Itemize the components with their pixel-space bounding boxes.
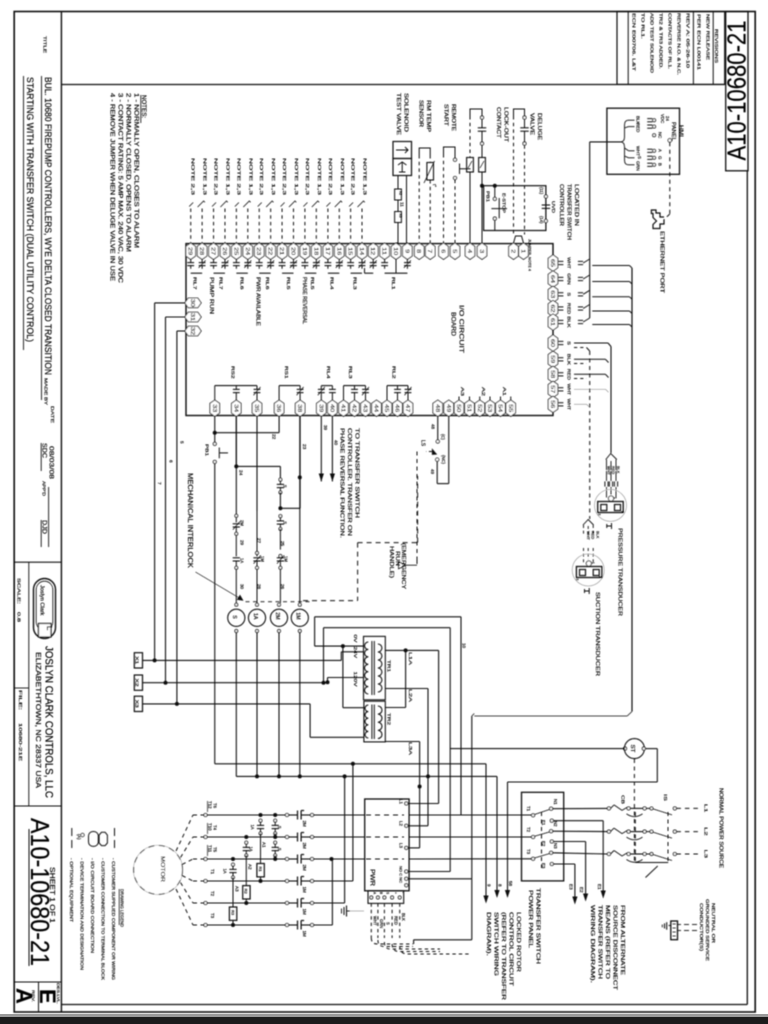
suction transducer connector body — [576, 567, 602, 578]
contactor coil 1A — [256, 603, 259, 606]
wire 10 riser down to transfer panel row — [460, 617, 462, 815]
rail wire 5 (X1) — [154, 303, 156, 661]
svg-text:-: - — [401, 892, 405, 893]
svg-text:A2: A2 — [480, 387, 486, 396]
terminal block X3 — [134, 696, 142, 711]
E2 wire and arrow — [553, 841, 585, 843]
dashed customer lines above terminals 19,18 — [304, 209, 306, 243]
svg-text:CONTROLLER: CONTROLLER — [558, 184, 564, 226]
svg-text:56: 56 — [549, 400, 555, 408]
svg-text:18: 18 — [312, 247, 318, 255]
svg-text:DELUGE: DELUGE — [536, 113, 542, 141]
PWR bottom dashed cable BLK — [399, 903, 401, 938]
TR1 tap 0V — [343, 645, 364, 647]
ground symbol near PWR — [350, 910, 364, 912]
TR1 tap 24V — [341, 651, 363, 653]
wire terminal 65 WHT — [558, 260, 563, 262]
analog pair A3 — [458, 397, 460, 401]
svg-text:0V: 0V — [353, 635, 358, 643]
wire 58 run to arrow — [508, 781, 635, 783]
terminal 21 — [277, 243, 287, 259]
suction transducer dashed feed branches — [574, 347, 587, 349]
PB1 pushbutton — [213, 442, 216, 445]
terminal 9 — [403, 243, 413, 259]
svg-text:RL3: RL3 — [352, 277, 357, 290]
svg-text:RL4: RL4 — [325, 366, 331, 379]
svg-text:NOTE 2,3: NOTE 2,3 — [236, 158, 241, 196]
wire terminal 32 to rail 7 — [177, 330, 185, 332]
svg-text:24: 24 — [238, 470, 244, 476]
I/O circuit board outline — [186, 244, 553, 416]
svg-text:WHT: WHT — [606, 466, 611, 475]
0V wire down to TR2 primary — [342, 646, 344, 708]
terminal 29 — [186, 243, 196, 259]
deluge bracket — [514, 109, 525, 116]
TR1 primary winding — [365, 642, 369, 694]
svg-text:65: 65 — [549, 259, 555, 267]
svg-text:7: 7 — [426, 249, 432, 253]
svg-text:2M: 2M — [302, 843, 307, 850]
terminal 64 on board right edge — [548, 271, 558, 287]
svg-text:L2: L2 — [399, 821, 404, 826]
svg-text:41: 41 — [340, 404, 346, 412]
wire terminal 4 line down — [469, 172, 471, 243]
svg-text:WIRING DIAGRAM).: WIRING DIAGRAM). — [589, 905, 595, 983]
svg-text:14: 14 — [358, 247, 364, 255]
svg-text:PER ECN L00141: PER ECN L00141 — [697, 14, 702, 71]
ST wire from riser — [450, 748, 623, 750]
relay contact 29-28 — [190, 259, 192, 262]
S auxiliary contact second (wire 25) — [279, 515, 282, 518]
PB1 common wire horizontal — [215, 763, 486, 765]
terminal 8 — [414, 243, 424, 259]
panel T3 pin — [532, 857, 535, 860]
svg-text:NOTE 2,3: NOTE 2,3 — [305, 158, 310, 196]
svg-text:NOTE 1,3: NOTE 1,3 — [317, 158, 322, 196]
terminal 57 on board right edge — [548, 381, 558, 397]
terminal 59 on board right edge — [548, 351, 558, 367]
terminal 2 — [509, 243, 519, 259]
svg-text:48: 48 — [431, 424, 436, 430]
terminal 44 on board bottom edge — [372, 400, 382, 416]
transformer TR1 box — [364, 636, 386, 699]
svg-text:26: 26 — [221, 247, 227, 255]
svg-text:NOTE 1,3: NOTE 1,3 — [225, 158, 230, 196]
svg-text:22: 22 — [271, 434, 277, 440]
source dashed lead L3 — [676, 853, 698, 855]
svg-text:WHT: WHT — [567, 399, 572, 411]
RM temp sensor dashed lines to terminals 8,7 — [418, 155, 420, 243]
svg-text:SUCTION TRANSDUCER: SUCTION TRANSDUCER — [594, 592, 600, 676]
terminal 35 on board bottom edge — [252, 400, 262, 416]
svg-text:1A: 1A — [252, 613, 258, 620]
svg-text:39: 39 — [323, 425, 328, 431]
wire terminal 64 GRN — [558, 276, 563, 278]
svg-text:WHT: WHT — [567, 384, 572, 396]
svg-text:JOSLYN CLARK CONTROLS, LLC: JOSLYN CLARK CONTROLS, LLC — [43, 646, 55, 798]
svg-text:62: 62 — [549, 305, 555, 313]
E3 wire and arrow — [553, 863, 575, 865]
terminal 10 — [391, 243, 401, 259]
C pin wire to right riser — [408, 878, 472, 880]
svg-text:1A: 1A — [250, 824, 255, 829]
svg-text:A2: A2 — [248, 864, 253, 870]
svg-text:NOTE 1,3: NOTE 1,3 — [248, 158, 253, 196]
svg-text:PWR AVAILABLE: PWR AVAILABLE — [255, 277, 261, 327]
E1 wire and arrow — [553, 820, 603, 822]
svg-text:APP'D: APP'D — [41, 481, 46, 496]
svg-text:NEUTRAL OR: NEUTRAL OR — [711, 903, 716, 944]
CB dashed linkage — [634, 812, 636, 861]
svg-text:31: 31 — [189, 313, 195, 321]
wire terminal 40 arrow down — [331, 417, 333, 482]
relay tree RL2 — [387, 385, 408, 387]
aux contact 1A chain A2 (L2-L5) — [244, 835, 248, 839]
PWR bottom dashed cable S — [383, 903, 385, 938]
svg-text:33: 33 — [211, 404, 217, 412]
svg-text:35: 35 — [253, 404, 259, 412]
svg-text:A3: A3 — [234, 886, 239, 892]
svg-text:61: 61 — [549, 318, 555, 326]
ST wire right and down — [645, 748, 657, 750]
title line 2 underline — [23, 76, 25, 350]
wire terminal 48 down — [437, 417, 439, 440]
svg-text:58: 58 — [508, 881, 513, 887]
HMI cable wire from bus to panel — [590, 141, 621, 143]
svg-text:LS: LS — [420, 440, 426, 447]
svg-text:WHT: WHT — [373, 916, 378, 926]
svg-text:57: 57 — [549, 385, 555, 393]
svg-text:30: 30 — [239, 584, 244, 590]
terminal 11 — [380, 243, 390, 259]
terminal 31 — [185, 312, 201, 322]
svg-text:NO C NC: NO C NC — [399, 866, 403, 883]
svg-text:6: 6 — [440, 249, 446, 253]
svg-text:2: 2 — [621, 511, 625, 513]
svg-text:T1: T1 — [526, 806, 531, 812]
svg-text:64: 64 — [549, 275, 555, 283]
svg-text:10: 10 — [462, 643, 467, 649]
wires from poles rightward — [313, 814, 365, 816]
svg-text:23: 23 — [255, 247, 261, 255]
svg-text:51: 51 — [466, 404, 472, 412]
S auxiliary contact (wire 24) — [279, 478, 282, 481]
PWR pin L1 — [405, 802, 408, 805]
svg-text:1M: 1M — [295, 612, 301, 619]
svg-text:(REFER TO TRANSFER: (REFER TO TRANSFER — [500, 912, 506, 1000]
terminal 32 — [185, 326, 201, 336]
svg-text:1A: 1A — [223, 868, 228, 873]
relay contact 23-22 — [258, 259, 260, 262]
wire 49 loop — [436, 461, 438, 483]
S wire 60 solid to pressure transducer feed — [574, 342, 608, 344]
svg-text:(11): (11) — [539, 187, 544, 195]
svg-text:NOTE 2,3: NOTE 2,3 — [282, 158, 287, 196]
svg-text:(14): (14) — [539, 216, 544, 224]
relay tree RL4 — [321, 385, 332, 387]
dashed customer lines above terminals 27,26 — [213, 209, 215, 243]
title strip divider above scale cell — [14, 561, 61, 563]
svg-text:BLK: BLK — [567, 354, 572, 367]
wire terminal 39 arrow down — [320, 417, 322, 482]
svg-text:E-STOP: E-STOP — [501, 193, 507, 213]
terminal 28 — [197, 243, 207, 259]
drawing number box top-right — [726, 12, 748, 171]
resistor R2 — [243, 886, 250, 899]
svg-text:GRN: GRN — [636, 161, 641, 171]
svg-text:CONDUCTOR(S): CONDUCTOR(S) — [699, 903, 704, 952]
junction dots at E-STOP box top — [480, 184, 484, 188]
svg-text:17: 17 — [324, 247, 330, 255]
wire solenoid to terminal 10 with fuse links — [397, 176, 399, 190]
svg-text:GRN: GRN — [567, 273, 572, 284]
remote start dashed line to terminal 5 — [454, 180, 456, 243]
svg-text:L3A: L3A — [407, 742, 413, 756]
svg-text:54: 54 — [497, 404, 503, 412]
PB1 wire down — [214, 464, 216, 764]
inner drawing border right — [746, 171, 748, 1005]
svg-text:T12: T12 — [208, 801, 213, 809]
svg-text:L1: L1 — [703, 804, 709, 813]
CB pole row 1 — [607, 807, 610, 810]
svg-text:36: 36 — [275, 404, 281, 412]
source dashed lead L1 — [676, 807, 698, 809]
svg-text:ELIZABETHTOWN, NC 28337 USA: ELIZABETHTOWN, NC 28337 USA — [34, 652, 43, 788]
wire terminal 3 line to E-STOP junction — [481, 172, 483, 243]
wire 24 horizontal — [236, 465, 280, 467]
PWR board box — [365, 799, 409, 891]
terminal 5 — [450, 243, 460, 259]
dashed customer lines above terminals 29,28 — [190, 209, 192, 243]
svg-text:11: 11 — [381, 247, 387, 255]
svg-text:A3: A3 — [459, 387, 465, 396]
svg-text:T2: T2 — [210, 891, 215, 897]
relay tree RS2 — [215, 385, 257, 387]
svg-text:t°: t° — [432, 184, 437, 187]
terminal 38 on board bottom edge — [295, 400, 305, 416]
ethernet dashed cable — [669, 142, 671, 214]
revisions table column lines — [627, 12, 629, 85]
svg-text:SOURCE DISCONNECT: SOURCE DISCONNECT — [612, 905, 618, 991]
svg-text:23: 23 — [301, 444, 307, 450]
wire 9 branch from PB1 common — [485, 764, 487, 902]
wire terminal 57 WHT — [558, 387, 563, 389]
terminal 45 on board bottom edge — [382, 400, 392, 416]
wire terminal 30 to rail 5 — [155, 302, 185, 304]
svg-text:48: 48 — [434, 404, 440, 412]
terminal 43 on board bottom edge — [361, 400, 371, 416]
svg-text:63: 63 — [549, 290, 555, 298]
svg-text:PRESSURE TRANSDUCER: PRESSURE TRANSDUCER — [617, 528, 623, 616]
NO pin wire to ST riser — [408, 871, 450, 873]
svg-text:LOCK-OUT: LOCK-OUT — [503, 107, 509, 143]
row L4 riser to PB1 common — [352, 764, 354, 881]
panel E2 pin — [550, 840, 553, 843]
legend symbol terminal block — [99, 832, 107, 845]
transducer/ST link wire py716 — [474, 715, 627, 717]
svg-text:29: 29 — [239, 540, 244, 546]
suction transducer fan-out chevron — [583, 520, 594, 526]
ethernet port connector symbol — [651, 210, 664, 229]
svg-text:B: B — [658, 163, 663, 166]
deluge contact symbol — [523, 116, 526, 119]
svg-text:46: 46 — [394, 404, 400, 412]
svg-text:10: 10 — [392, 247, 398, 255]
svg-text:PHASE REVERSAL: PHASE REVERSAL — [301, 277, 307, 324]
svg-text:120V: 120V — [353, 672, 358, 687]
svg-text:TR2 & TR3 ADDED.: TR2 & TR3 ADDED. — [659, 13, 664, 69]
title line 1 underline — [41, 76, 43, 400]
jumper symbol above terminals 2-1 — [514, 236, 524, 243]
inner drawing border top — [61, 84, 724, 86]
svg-text:UVD: UVD — [550, 201, 556, 214]
svg-text:RL1: RL1 — [391, 277, 396, 290]
svg-text:T3: T3 — [210, 913, 215, 919]
title strip divider line — [60, 12, 62, 1013]
svg-text:RS1: RS1 — [283, 366, 289, 379]
TR1 core — [371, 641, 373, 695]
svg-text:NOTE 1,3: NOTE 1,3 — [294, 158, 299, 196]
svg-text:R3: R3 — [230, 910, 235, 916]
svg-text:ST: ST — [629, 745, 635, 753]
svg-text:20: 20 — [289, 247, 295, 255]
chevron above terminals 27,26 — [212, 203, 216, 207]
svg-text:49: 49 — [445, 404, 451, 412]
terminal 50 on board bottom edge — [454, 400, 464, 416]
UVD contact on box edge — [544, 195, 547, 198]
svg-text:SHEET 1 OF 1: SHEET 1 OF 1 — [48, 867, 57, 923]
svg-text:MEANS (REFER TO: MEANS (REFER TO — [604, 905, 610, 979]
wire terminal 61 BLK — [558, 319, 563, 321]
svg-text:S: S — [637, 156, 642, 159]
TR1 secondary winding — [378, 644, 382, 692]
svg-text:NORMAL POWER SOURCE: NORMAL POWER SOURCE — [718, 788, 724, 869]
svg-text:- OPTIONAL EQUIPMENT: - OPTIONAL EQUIPMENT — [69, 858, 74, 922]
analog pair A1 — [500, 397, 502, 401]
svg-text:S: S — [282, 485, 287, 488]
svg-text:1M: 1M — [283, 556, 288, 562]
terminal 39 on board bottom edge — [317, 400, 327, 416]
svg-text:B: B — [379, 892, 383, 894]
pressure transducer connector body — [598, 502, 624, 513]
terminal 14 — [357, 243, 367, 259]
transformer TR2 box — [364, 701, 385, 742]
svg-text:REV.: REV. — [31, 990, 35, 1002]
wire terminal 33 down to PB1 junction — [214, 417, 216, 443]
svg-text:TITLE: TITLE — [43, 36, 48, 53]
transfer switch dashed linkage — [541, 812, 543, 868]
svg-text:BOARD: BOARD — [450, 312, 457, 336]
pole contact 2M row 2 — [285, 835, 288, 838]
svg-text:PHASE REVERSAL FUNCTION.: PHASE REVERSAL FUNCTION. — [339, 428, 345, 538]
svg-text:TR1: TR1 — [386, 660, 392, 672]
mechanical interlock leader line — [196, 572, 242, 599]
terminal 33 on board bottom edge — [210, 400, 220, 416]
svg-text:RED: RED — [567, 369, 572, 381]
svg-text:0.8: 0.8 — [17, 612, 22, 623]
svg-text:GRN: GRN — [379, 919, 384, 928]
svg-text:DES.LVL.: DES.LVL. — [56, 983, 60, 1004]
wire terminal 38 down to junction — [299, 417, 301, 509]
svg-text:HANDLE): HANDLE) — [388, 546, 394, 578]
contactor coil 1M — [298, 603, 301, 606]
svg-text:RL6: RL6 — [239, 277, 244, 290]
svg-text:RL2: RL2 — [391, 366, 397, 379]
terminal 34 on board bottom edge — [232, 400, 242, 416]
svg-text:REV A: 05-26-10: REV A: 05-26-10 — [686, 13, 691, 69]
svg-text:28: 28 — [198, 247, 204, 255]
svg-text:ETHERNET PORT: ETHERNET PORT — [659, 231, 665, 294]
X3 wire — [143, 703, 311, 705]
svg-text:55: 55 — [507, 404, 513, 412]
svg-text:X2: X2 — [135, 679, 140, 688]
wire 11 solenoid to terminal 9 — [406, 176, 408, 244]
Joslyn Clark logo monogram box — [39, 624, 52, 638]
svg-text:+: + — [393, 892, 397, 894]
terminal 17 — [323, 243, 333, 259]
C riser and lower link — [471, 716, 473, 879]
svg-text:START: START — [443, 104, 449, 127]
panel E1 pin — [550, 819, 553, 822]
coil return wires down to common — [235, 633, 237, 777]
dashed customer lines above terminals 23,22 — [258, 209, 260, 243]
svg-text:TO TRANSFER SWITCH: TO TRANSFER SWITCH — [354, 428, 360, 518]
svg-text:2M: 2M — [302, 865, 307, 872]
svg-text:24: 24 — [244, 247, 250, 255]
pole contact 2M row 1 — [285, 813, 288, 816]
svg-text:WHT: WHT — [636, 146, 641, 156]
svg-text:2 - NORMALLY CLOSED, OPENS TO: 2 - NORMALLY CLOSED, OPENS TO ALARM — [125, 93, 132, 252]
terminal 23 — [254, 243, 264, 259]
terminal 40 on board bottom edge — [328, 400, 338, 416]
terminal 1 — [519, 243, 529, 259]
svg-text:49: 49 — [430, 469, 435, 475]
remote start pushbutton — [454, 154, 456, 158]
terminal 65 on board right edge — [548, 255, 558, 271]
svg-text:TRANSFER SWITCH: TRANSFER SWITCH — [597, 905, 603, 979]
parallel wires to ST bus from 65-61 rows — [592, 265, 629, 267]
HMI conductor GRN to B — [629, 164, 635, 166]
TR2 primary winding — [365, 705, 368, 738]
svg-text:3: 3 — [478, 249, 484, 253]
scale sub-cell divider — [28, 562, 30, 806]
HMI conductor RED — [629, 126, 635, 128]
svg-text:L2A: L2A — [407, 689, 413, 703]
IS pole row 2 — [643, 830, 646, 833]
svg-text:RL5: RL5 — [286, 277, 291, 290]
HMI cable bus vertical — [589, 142, 591, 318]
svg-text:1 - NORMALLY OPEN, CLOSES TO A: 1 - NORMALLY OPEN, CLOSES TO ALARM — [133, 93, 140, 248]
terminal 48 on board bottom edge — [433, 400, 443, 416]
svg-text:CONTACT: CONTACT — [495, 107, 501, 139]
coil common wire — [236, 775, 497, 777]
E-STOP pushbutton contact — [494, 186, 496, 198]
TR2 secondary link to L1A — [405, 650, 407, 707]
terminal 54 on board bottom edge — [496, 400, 506, 416]
1M interlock contact on 2M coil wire — [279, 529, 281, 550]
TR2 core — [371, 705, 373, 740]
svg-text:E2: E2 — [579, 887, 584, 893]
svg-text:T1: T1 — [210, 869, 215, 875]
neutral ground symbol — [669, 925, 671, 927]
svg-text:5: 5 — [451, 249, 457, 253]
svg-text:CONTROL CIRCUIT: CONTROL CIRCUIT — [508, 912, 514, 987]
svg-text:08/03/08: 08/03/08 — [48, 446, 54, 480]
HMI cable fan brace — [621, 120, 629, 165]
svg-text:G: G — [658, 156, 663, 160]
PWR pin L2 — [405, 824, 408, 827]
X2 wire — [143, 682, 328, 684]
